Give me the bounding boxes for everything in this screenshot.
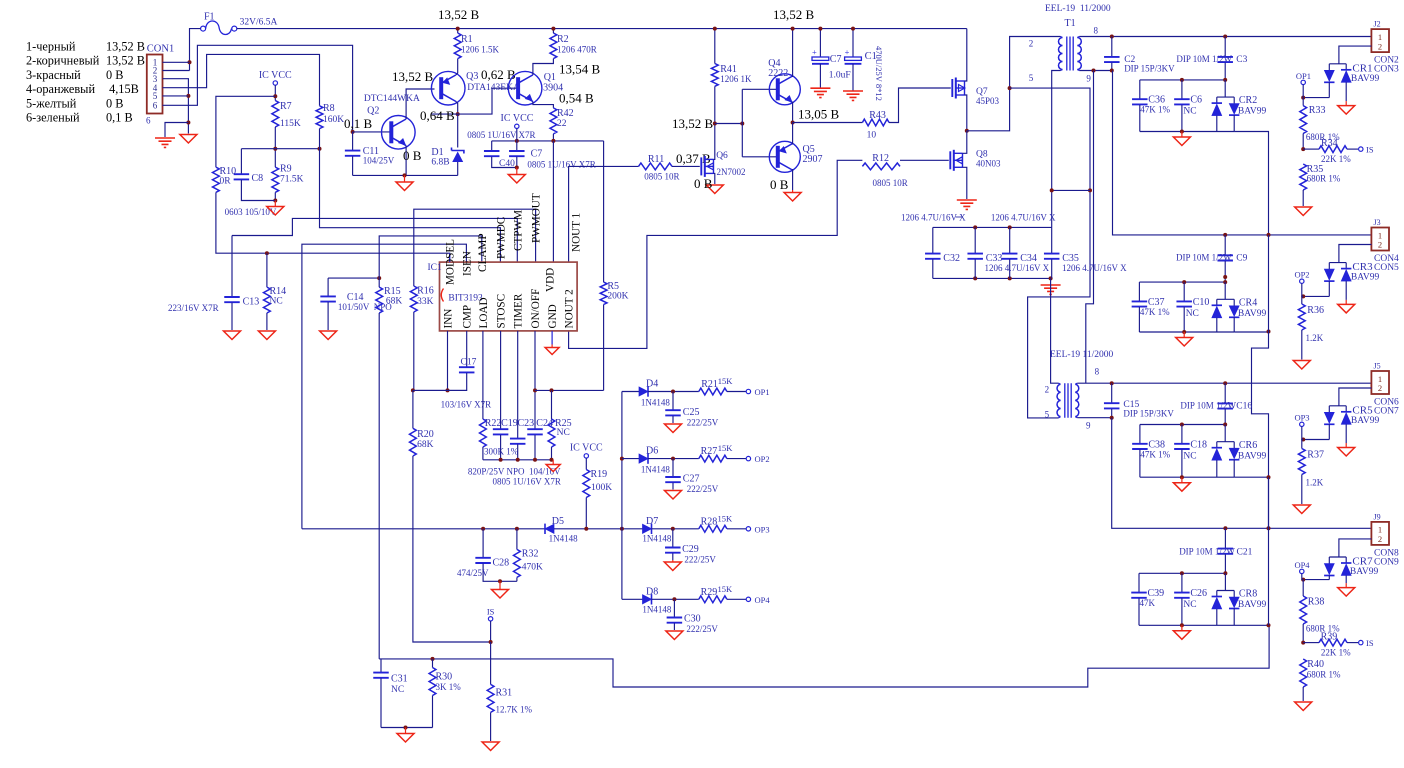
- svg-text:C6: C6: [1190, 95, 1202, 106]
- wire T2 pin2 up: [1051, 278, 1059, 383]
- svg-text:1206 4.7U/16V X: 1206 4.7U/16V X: [991, 213, 1056, 223]
- resistor R2: [550, 33, 597, 59]
- svg-text:IS: IS: [1366, 145, 1374, 155]
- node sn1: [973, 225, 977, 229]
- wire GND stub: [551, 331, 553, 345]
- node R14 tap: [265, 251, 269, 255]
- resistor R9: [272, 164, 304, 193]
- diode pair CR8: [1212, 573, 1267, 625]
- svg-text:PWMOUT: PWMOUT: [531, 193, 543, 243]
- capacitor C6: [1174, 80, 1202, 132]
- diode pair CR2: [1212, 80, 1267, 132]
- svg-text:0,1 В: 0,1 В: [106, 111, 133, 125]
- resistor R1: [454, 33, 499, 59]
- svg-text:+: +: [812, 47, 817, 57]
- svg-text:R33: R33: [1309, 105, 1326, 116]
- node R32 tap: [515, 527, 519, 531]
- svg-text:CR2: CR2: [1239, 95, 1257, 106]
- wire VDD vertical: [552, 141, 554, 262]
- node IS sense: [487, 607, 495, 622]
- ground R36: [1293, 361, 1310, 370]
- svg-text:13,05 В: 13,05 В: [798, 107, 840, 122]
- node sn5: [1049, 276, 1053, 280]
- ground Q2: [404, 175, 406, 182]
- svg-text:32V/6.5A: 32V/6.5A: [240, 18, 278, 28]
- wire block bottom rail: [1139, 331, 1234, 333]
- svg-text:C31: C31: [391, 674, 408, 685]
- transistor Q7: [952, 78, 999, 107]
- capacitor C31: [373, 659, 407, 728]
- wire C31 R30 bottom rail: [381, 727, 433, 729]
- node C16 top: [1223, 381, 1227, 385]
- ground snubber: [1041, 285, 1061, 294]
- ground block4: [1181, 625, 1183, 631]
- svg-text:C7: C7: [531, 149, 543, 160]
- wire CON1 pin 3 to gnd column: [163, 79, 189, 134]
- node base bus junction: [740, 122, 744, 126]
- ground C14: [320, 331, 337, 340]
- resistor R39: [1303, 632, 1358, 658]
- svg-text:OP1: OP1: [755, 387, 770, 397]
- svg-text:223/16V X7R: 223/16V X7R: [168, 303, 219, 313]
- wire pin2 to CR3: [1339, 245, 1372, 263]
- wire OP wire: [1303, 295, 1329, 297]
- svg-text:R21: R21: [701, 379, 718, 390]
- wire pin9 branch to T2: [1086, 71, 1094, 384]
- resistor R10: [212, 166, 236, 192]
- svg-text:R8: R8: [323, 103, 335, 114]
- capacitor C7: [509, 141, 596, 170]
- svg-text:9: 9: [1086, 74, 1091, 84]
- svg-text:STOSC: STOSC: [496, 294, 508, 329]
- wire R42 to VDD rail: [552, 134, 554, 141]
- svg-text:BAV99: BAV99: [1238, 309, 1267, 319]
- svg-text:15K: 15K: [718, 584, 734, 594]
- svg-text:R39: R39: [1321, 632, 1338, 643]
- wire R41 bottom: [714, 86, 716, 123]
- node OP2 out: [746, 454, 769, 464]
- svg-text:OP1: OP1: [1296, 71, 1311, 81]
- node IS 1: [1359, 145, 1374, 155]
- wire pin9 to J3 feed: [1113, 71, 1372, 235]
- svg-text:6.8B: 6.8B: [431, 158, 449, 168]
- ground R37: [1293, 505, 1310, 514]
- ground Q6: [706, 185, 723, 194]
- svg-text:474/25V: 474/25V: [457, 568, 489, 578]
- svg-text:IC VCC: IC VCC: [501, 113, 534, 124]
- svg-text:0 B: 0 B: [770, 177, 789, 192]
- svg-text:DIP 15P/3KV: DIP 15P/3KV: [1124, 64, 1175, 74]
- svg-text:103/16V X7R: 103/16V X7R: [441, 400, 492, 410]
- node R34 tap: [1301, 147, 1305, 151]
- svg-text:R16: R16: [417, 286, 434, 297]
- svg-text:0,64 В: 0,64 В: [420, 108, 455, 123]
- node C2 bottom: [1110, 69, 1114, 73]
- node OP2: [1294, 270, 1309, 297]
- svg-text:10: 10: [867, 131, 877, 141]
- capacitor C36: [1132, 80, 1170, 132]
- resistor R30: [429, 659, 461, 728]
- resistor R14: [264, 253, 287, 330]
- svg-text:13,52 В: 13,52 В: [672, 116, 714, 131]
- diode D8: [642, 587, 671, 615]
- svg-text:C7: C7: [830, 54, 842, 65]
- svg-text:R34: R34: [1321, 138, 1338, 149]
- svg-text:3-красный: 3-красный: [26, 68, 81, 82]
- wire T1 pin8 out: [1079, 36, 1371, 38]
- node C15 top: [1110, 381, 1114, 385]
- wire CON1 pin 6 to Q2 base: [163, 45, 353, 132]
- wire C8 top link: [241, 148, 319, 150]
- svg-text:IS: IS: [1366, 638, 1374, 648]
- svg-text:CON1: CON1: [147, 44, 174, 55]
- svg-text:D4: D4: [646, 379, 658, 390]
- svg-text:IC VCC: IC VCC: [570, 443, 603, 454]
- resistor R31: [487, 684, 532, 714]
- svg-text:C28: C28: [493, 558, 510, 569]
- node Q4 rail: [791, 27, 795, 31]
- resistor R38: [1300, 580, 1340, 643]
- node C29 tap: [671, 527, 675, 531]
- svg-text:33K: 33K: [417, 297, 434, 307]
- svg-text:0 B: 0 B: [694, 176, 713, 191]
- node C9 bottom: [1223, 275, 1227, 279]
- wire right rail 390: [535, 389, 604, 391]
- svg-text:R10: R10: [220, 166, 237, 177]
- svg-text:C32: C32: [943, 253, 960, 264]
- wire R29 to OP4: [727, 598, 746, 600]
- svg-text:NOUT 2: NOUT 2: [563, 289, 575, 328]
- ground Q8: [957, 200, 977, 209]
- capacitor C18: [1174, 425, 1207, 478]
- wire R22 bottom: [482, 447, 484, 460]
- node C7e rail: [818, 27, 822, 31]
- connector CON1: [146, 44, 174, 126]
- node C21 top: [1223, 526, 1227, 530]
- node pin5 snubber junction: [1050, 188, 1054, 192]
- wire VCC rail: [492, 140, 604, 142]
- svg-text:1206 470R: 1206 470R: [557, 45, 597, 55]
- wire base bus vertical: [741, 89, 743, 157]
- svg-text:100K: 100K: [591, 483, 612, 493]
- svg-text:0805 1U/16V X7R: 0805 1U/16V X7R: [527, 160, 595, 170]
- svg-text:5: 5: [1029, 73, 1034, 83]
- svg-text:C23: C23: [518, 418, 535, 429]
- node C25 tap: [671, 390, 675, 394]
- svg-text:C30: C30: [684, 614, 701, 625]
- ground C1: [843, 91, 863, 100]
- wire Q5 emitter: [792, 123, 794, 145]
- wire T2 pin9 to J9 feed: [1112, 418, 1372, 529]
- diode pair CR3: [1324, 263, 1351, 300]
- svg-text:CR1: CR1: [1352, 63, 1372, 75]
- capacitor C1: [845, 29, 877, 91]
- svg-text:4,15В: 4,15В: [106, 82, 139, 96]
- svg-text:C40: C40: [499, 159, 515, 169]
- diode D6: [639, 446, 670, 475]
- svg-text:CR8: CR8: [1239, 589, 1257, 600]
- svg-text:R31: R31: [496, 688, 513, 699]
- wire D6 row left: [622, 458, 639, 460]
- capacitor C2: [1104, 37, 1175, 74]
- node C30 tap: [672, 597, 676, 601]
- capacitor C9: [1176, 235, 1248, 282]
- svg-text:DIP 10M 1/2W: DIP 10M 1/2W: [1179, 547, 1235, 557]
- node C7 gnd: [515, 166, 519, 170]
- capacitor C37: [1132, 282, 1170, 332]
- wire D6 to R27: [648, 458, 699, 460]
- svg-text:Q3: Q3: [466, 71, 478, 82]
- svg-text:68K: 68K: [386, 297, 403, 307]
- wire R5 bottom: [603, 305, 605, 391]
- node OP1: [1296, 71, 1311, 98]
- wire pin2 to CR1: [1339, 46, 1372, 64]
- svg-text:GND: GND: [547, 304, 559, 328]
- svg-text:0,1 В: 0,1 В: [344, 116, 373, 131]
- node R25 junction: [550, 388, 554, 392]
- svg-text:BAV99: BAV99: [1351, 74, 1380, 84]
- wire OP wire: [1303, 97, 1329, 99]
- svg-text:3K 1%: 3K 1%: [436, 682, 462, 692]
- wire CR4 out zigzag down: [1252, 332, 1269, 478]
- svg-text:0805 1U/16V X7R: 0805 1U/16V X7R: [493, 477, 561, 487]
- svg-text:R15: R15: [384, 286, 401, 297]
- resistor R15: [376, 286, 403, 313]
- resistor R11: [639, 154, 680, 182]
- op-amp IC1 BIT3193 box: [428, 262, 578, 331]
- svg-text:680R 1%: 680R 1%: [1307, 174, 1341, 184]
- capacitor C23: [510, 418, 534, 460]
- capacitor C25: [665, 392, 718, 428]
- svg-text:F1: F1: [204, 12, 215, 23]
- svg-text:13,52 В: 13,52 В: [106, 54, 145, 68]
- svg-text:R7: R7: [280, 101, 292, 112]
- capacitor C15: [1104, 383, 1174, 418]
- svg-text:12.7K 1%: 12.7K 1%: [496, 705, 533, 715]
- svg-text:47K 1%: 47K 1%: [1140, 307, 1170, 317]
- node T1 pin2 branch: [1008, 86, 1012, 90]
- svg-text:CON7: CON7: [1374, 407, 1399, 417]
- wire R5 top vertical: [603, 141, 605, 282]
- wire earth branch: [165, 123, 188, 138]
- capacitor C39: [1131, 573, 1164, 625]
- diode D4: [639, 379, 670, 408]
- svg-text:NC: NC: [270, 297, 283, 307]
- wire block bottom rail: [1140, 476, 1234, 478]
- wire feedback long rail: [379, 625, 1269, 687]
- wire T1 pin5 down: [1052, 71, 1061, 228]
- svg-text:115K: 115K: [280, 119, 301, 129]
- svg-text:222/25V: 222/25V: [686, 624, 718, 634]
- svg-text:222/25V: 222/25V: [684, 555, 716, 565]
- svg-text:NC: NC: [1183, 451, 1196, 461]
- node C9 top: [1223, 233, 1227, 237]
- svg-text:71.5K: 71.5K: [280, 175, 304, 185]
- svg-text:C27: C27: [683, 474, 700, 485]
- svg-text:13,52 В: 13,52 В: [438, 7, 480, 22]
- svg-text:BAV99: BAV99: [1238, 451, 1267, 461]
- svg-text:0 В: 0 В: [106, 68, 123, 82]
- svg-text:C10: C10: [1193, 297, 1210, 308]
- svg-text:R2: R2: [557, 34, 569, 45]
- ground C13: [224, 331, 241, 340]
- ground IC1 GND: [551, 345, 553, 348]
- diode pair CR6: [1212, 425, 1267, 478]
- wire block4 bottom rail: [1139, 624, 1269, 626]
- node CR4 out: [1267, 330, 1271, 334]
- svg-text:OP4: OP4: [755, 595, 771, 605]
- wire switch branch right: [1010, 88, 1090, 418]
- wire R21 to OP1: [727, 391, 746, 393]
- node C28 tap: [481, 527, 485, 531]
- wire mega vertical J3 to CR4: [1268, 235, 1270, 332]
- svg-text:1206 1.5K: 1206 1.5K: [461, 45, 500, 55]
- svg-text:2: 2: [1029, 39, 1034, 49]
- node D6 tap: [620, 457, 624, 461]
- power node IC VCC: [259, 70, 292, 85]
- ground C7: [516, 168, 518, 175]
- svg-text:5: 5: [1045, 410, 1050, 420]
- svg-text:C25: C25: [683, 407, 700, 418]
- wire ONOFF stub: [534, 331, 536, 429]
- node CR6 out: [1267, 475, 1271, 479]
- ground C30: [666, 631, 683, 640]
- wire Q8 drain to switch: [963, 131, 967, 154]
- svg-text:R29: R29: [701, 587, 718, 598]
- svg-text:CR4: CR4: [1239, 297, 1257, 308]
- svg-text:LOAD: LOAD: [478, 297, 490, 328]
- wire snubber feed: [1052, 189, 1090, 191]
- svg-text:J3: J3: [1374, 218, 1381, 227]
- svg-text:9: 9: [1086, 421, 1091, 431]
- svg-text:47K: 47K: [1140, 598, 1156, 608]
- wire MODSEL stub: [449, 253, 451, 262]
- svg-text:C17: C17: [461, 358, 477, 368]
- wire R1 to Q3 emitter: [456, 59, 458, 75]
- capacitor C30: [667, 599, 719, 634]
- wire Q8 source: [963, 167, 967, 199]
- svg-text:R27: R27: [701, 446, 718, 457]
- wire cap bottom rail: [483, 459, 553, 461]
- svg-text:1N4148: 1N4148: [641, 465, 670, 475]
- wire Q4 collector: [792, 29, 794, 77]
- wire snubber top rail: [933, 226, 1052, 228]
- wire D4 row left: [622, 391, 639, 393]
- diode pair CR5: [1324, 406, 1351, 443]
- node bottom gnd: [404, 726, 408, 730]
- svg-text:R32: R32: [522, 549, 539, 560]
- capacitor C35: [1044, 227, 1079, 278]
- ground R30: [405, 728, 407, 734]
- wire main 13.52V top rail: [237, 28, 967, 30]
- node OP4 out: [746, 595, 770, 605]
- svg-text:1206 4.7U/16V X: 1206 4.7U/16V X: [1062, 263, 1127, 273]
- ground block: [1183, 332, 1185, 338]
- transistor Q3: [431, 71, 520, 105]
- svg-text:15K: 15K: [718, 514, 734, 524]
- node diode col tap: [620, 527, 624, 531]
- node gnd junction: [186, 121, 190, 125]
- svg-text:1206 1K: 1206 1K: [720, 74, 752, 84]
- resistor R21: [699, 376, 734, 395]
- svg-text:Q1: Q1: [544, 72, 556, 83]
- resistor R25: [548, 390, 572, 459]
- wire T2 pin9 out: [1077, 417, 1111, 419]
- wire R2 top: [552, 29, 554, 33]
- node sn3: [973, 276, 977, 280]
- svg-text:15K: 15K: [718, 443, 734, 453]
- svg-text:2: 2: [1378, 240, 1382, 250]
- node C3 top: [1223, 35, 1227, 39]
- svg-text:1206 4.7U/16V X: 1206 4.7U/16V X: [985, 263, 1050, 273]
- capacitor C14: [320, 278, 392, 330]
- svg-text:D1: D1: [431, 147, 443, 158]
- wire block top rail: [1139, 281, 1225, 283]
- node R19 bottom: [584, 527, 588, 531]
- ground C7 electrolytic: [810, 88, 830, 97]
- svg-text:1.2K: 1.2K: [1306, 333, 1324, 343]
- svg-text:C9: C9: [1236, 254, 1247, 264]
- connector J2: [1371, 20, 1399, 75]
- svg-text:R30: R30: [436, 672, 453, 683]
- node R2 rail: [551, 27, 555, 31]
- wire Q4 base: [742, 88, 778, 90]
- resistor R7: [272, 101, 301, 130]
- svg-text:13,52 В: 13,52 В: [773, 7, 815, 22]
- svg-text:R14: R14: [270, 286, 287, 297]
- wire IS stem: [490, 621, 492, 642]
- resistor R16: [410, 286, 433, 312]
- svg-text:40N03: 40N03: [976, 159, 1001, 169]
- wire CON1 pin 1 stub: [163, 61, 190, 63]
- node pin9 branch: [1092, 69, 1096, 73]
- svg-text:8: 8: [1095, 367, 1100, 377]
- wire CR right out: [1234, 477, 1268, 528]
- svg-text:101/50V NPO: 101/50V NPO: [338, 302, 392, 312]
- resistor R32: [514, 529, 544, 582]
- wire ISEN rail: [302, 528, 545, 530]
- wire gate drive to Q4 Q5 bases: [715, 123, 743, 125]
- node pin5 junction: [186, 94, 190, 98]
- wire block bottom rail: [1140, 131, 1234, 133]
- ground R31: [482, 742, 499, 751]
- svg-text:NC: NC: [1183, 600, 1196, 610]
- wire CON1 pin 4 to R8: [163, 54, 320, 105]
- IC1 top pin labels: [445, 193, 583, 292]
- svg-text:C29: C29: [682, 544, 699, 555]
- capacitor C21: [1179, 528, 1252, 573]
- node block4 out: [1267, 623, 1271, 627]
- svg-text:J2: J2: [1374, 20, 1381, 29]
- svg-text:DIP 10M 1/2W: DIP 10M 1/2W: [1176, 54, 1232, 64]
- svg-text:0805 1U/16V X7R: 0805 1U/16V X7R: [467, 130, 535, 140]
- wire T2 pin8 out: [1077, 382, 1371, 384]
- node R7 top junction: [273, 94, 277, 98]
- wire ISEN long vertical: [302, 244, 467, 529]
- svg-text:+: +: [845, 47, 850, 57]
- resistor R33: [1300, 98, 1340, 150]
- svg-text:C3: C3: [1236, 55, 1247, 65]
- wire CR right out: [1234, 331, 1268, 334]
- wire R15 bottom long: [378, 313, 380, 659]
- node OP4: [1294, 560, 1310, 580]
- diode pair CR4: [1212, 282, 1267, 332]
- svg-text:0 В: 0 В: [106, 96, 123, 110]
- wire R16 bottom: [413, 312, 415, 390]
- wire Q6 drain: [714, 124, 715, 160]
- svg-text:470U/25V 8*12: 470U/25V 8*12: [874, 46, 884, 101]
- resistor R27: [699, 443, 734, 462]
